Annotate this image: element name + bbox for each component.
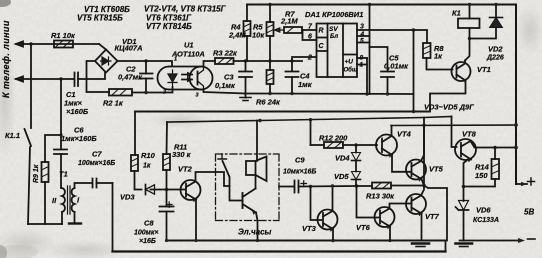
wire [99,44,106,50]
svg-text:К1: К1 [452,9,461,18]
svg-text:2: 2 [162,90,166,96]
svg-text:R12 200: R12 200 [319,134,348,143]
wire [132,92,171,94]
wire C7 to box [97,182,113,184]
opto arrows [182,75,192,80]
svg-text:1мк×160Б: 1мк×160Б [61,134,97,143]
clock transistor (no circle) [242,193,244,208]
wire VT4 emitter to VT5 base [392,155,412,172]
svg-text:VT7: VT7 [425,212,440,221]
ground bus right [460,240,519,242]
svg-text:R: R [319,28,324,35]
transistor VT8 [455,139,476,160]
ground T1 [69,222,81,224]
wire [146,61,172,66]
top rail [247,4,516,6]
svg-text:С7: С7 [92,150,102,159]
svg-text:VD3: VD3 [120,193,135,202]
wire pin2 from C4 [292,57,317,61]
transistor VT6 [375,207,395,227]
svg-text:VD5: VD5 [334,172,349,181]
junction [244,59,247,62]
frame right riser [445,241,447,252]
switch K1.1 blade [25,129,32,146]
svg-text:10мк×16Б: 10мк×16Б [283,169,316,176]
wire clock collector to speaker [255,175,257,189]
svg-text:+U: +U [345,59,354,66]
transistor VT3 [318,210,338,230]
svg-text:1к: 1к [143,163,151,170]
svg-text:330 к: 330 к [172,150,192,159]
wire R13 [357,185,425,188]
capacitor C5 [381,72,394,95]
wire 555 output [370,29,414,31]
capacitor C7 [93,179,97,188]
resistor R14 [492,159,500,179]
junction [144,91,147,94]
wire R11 branch [166,122,169,154]
svg-text:VT8: VT8 [462,130,477,139]
svg-text:100мк×16Б: 100мк×16Б [78,160,115,167]
resistor R2 [109,89,132,96]
wire junction to VT2 base [167,189,186,191]
clock switch [218,154,227,159]
wire VT4 collector [391,126,393,137]
wire R9 down [44,182,46,224]
svg-text:10к: 10к [252,31,265,40]
C8 plus sign [167,202,173,208]
junction [268,59,271,62]
svg-text:VT3: VT3 [302,224,317,233]
potentiometer R5 [267,22,274,36]
wire VT3 base feed [311,187,323,221]
wire [118,60,147,62]
transistor VT2 [181,180,201,200]
wire R11 to junction [166,170,168,190]
wire VT2 collector [196,172,230,186]
svg-text:Эл.часы: Эл.часы [238,228,272,237]
right rail [515,5,517,185]
svg-text:1к: 1к [434,52,443,61]
wire R4 branch [246,5,248,22]
svg-text:1: 1 [174,57,177,63]
wire C9 feed [279,186,294,188]
svg-text:8: 8 [360,55,364,62]
svg-text:5: 5 [360,38,364,45]
wire VT8 emitter [464,159,470,202]
svg-text:R6 24к: R6 24к [256,98,281,107]
opto phototransistor [190,67,213,90]
junction [268,92,271,95]
svg-text:Д226: Д226 [486,55,504,62]
capacitor C4 [286,61,299,94]
minus terminal [518,238,525,243]
wire pin6 tie [303,30,317,40]
resistor R1 [54,41,73,48]
resistor R12 [324,142,343,148]
capacitor C3 [239,61,252,94]
wire VT6 emitter [389,227,391,241]
wire VD5 node to VT6 base [357,186,380,218]
capacitor C6 [54,135,67,154]
capacitor C9 [295,181,299,193]
junction [290,59,293,62]
capacitor C2 [140,74,153,79]
junction [59,77,62,80]
capacitor C1 [75,73,79,87]
wire [145,61,147,74]
wire VT3 collector [332,186,334,211]
resistor R3 [215,58,234,64]
resistor R10 [131,155,138,171]
svg-text:VT7 КТ814Б: VT7 КТ814Б [146,22,192,31]
svg-text:5В: 5В [524,208,534,217]
svg-text:100мк×: 100мк× [134,230,159,237]
clock dashed box [216,154,280,221]
svg-text:R1 10к: R1 10к [51,31,76,40]
plus terminal [516,183,527,185]
svg-text:SV: SV [329,26,338,33]
speaker B1 [246,161,256,175]
wire node to right riser [424,186,447,241]
wire relay bottom [470,28,497,39]
svg-text:0,1мк: 0,1мк [215,81,236,90]
R5 wiper arrow from R7 [276,29,283,31]
wire output down to bus [413,30,415,111]
transistor VT4 [376,135,397,156]
svg-text:R9 1к: R9 1к [33,164,40,183]
wire R8 to VT1 base [427,58,453,70]
svg-text:150: 150 [475,171,488,180]
wire LED cathode [172,87,174,93]
svg-text:VT2: VT2 [178,165,193,174]
left edge of lower frame [112,183,114,252]
wire [87,61,110,92]
svg-text:R3 22к: R3 22к [213,49,238,58]
wire C5 stub [370,47,388,72]
svg-text:1: 1 [360,62,364,69]
wire [246,36,248,61]
svg-text:3: 3 [196,93,199,99]
svg-text:VT5: VT5 [429,165,444,174]
wire R14 bottom [464,179,496,187]
wire pins 4/5 vertical [369,5,371,95]
svg-text:R10: R10 [141,151,156,160]
svg-text:КС133А: КС133А [473,217,499,224]
svg-text:Т1: Т1 [59,170,68,179]
transistor VT5 [406,160,426,180]
wire R3 to chip area [234,60,303,62]
wire R12 feed [310,120,312,145]
transformer T1 winding I [72,188,75,212]
opto LED [168,70,177,87]
svg-text:R13 30к: R13 30к [366,192,395,201]
wire VT8 base riser [452,117,457,148]
bottom-left wire [28,223,62,225]
wire VT2 emitter [195,200,197,241]
wire VT5 emitter / VT7 collector [422,125,425,185]
diode VD3 [145,185,147,195]
zener VD6 [459,201,469,211]
svg-text:Бл: Бл [330,34,338,40]
wire VT1 collector [465,39,470,61]
ground bus under chip [245,93,414,96]
svg-text:К телеф. линии: К телеф. линии [1,20,11,98]
supply line y111 [135,111,430,113]
line y125 [391,124,516,127]
resistor R6 [267,70,274,84]
optocoupler U1 body [169,67,203,90]
junction [29,42,32,45]
svg-text:VD6: VD6 [476,206,491,215]
ground under C3 [240,98,251,101]
wire VT3 emitter [332,229,334,241]
svg-text:0,01мк: 0,01мк [384,62,409,71]
svg-text:VD2: VD2 [488,45,503,54]
wire [30,44,32,128]
wire opto emitter to bus [204,90,246,94]
relay K1 [469,5,471,19]
svg-text:Общ: Общ [344,67,358,74]
scan smudges [0,0,11,7]
bottom rail [113,250,446,252]
diode VD4 [355,145,357,153]
wire clock emitter [256,213,258,241]
wire winding I bottom to ground [74,212,76,222]
svg-text:К1.1: К1.1 [5,131,20,140]
svg-text:×160Б: ×160Б [66,107,89,116]
ground bus bottom [167,240,446,242]
resistor R8 [423,43,431,58]
svg-text:1мк: 1мк [298,80,313,89]
wire winding I top [75,183,92,188]
svg-text:VD4: VD4 [335,154,350,163]
wire VT7 collector [421,186,424,196]
svg-text:С9: С9 [295,156,305,165]
wire R5 branch [269,5,271,23]
resistor R9 [42,162,49,182]
svg-text:DA1 КР1006ВИ1: DA1 КР1006ВИ1 [305,10,363,19]
wire VT1 emitter [430,81,466,112]
wire C6 to T1 [60,154,62,188]
svg-text:3: 3 [360,24,364,31]
wire R7 to pin7 [302,29,317,31]
wire clock base [230,186,243,201]
wire R14 top [494,148,496,160]
wire junction down to C8 [166,190,168,207]
svg-text:VD3~VD5 Д9Г: VD3~VD5 Д9Г [424,103,474,112]
transformer T1 winding II [62,188,65,212]
diode VD5 [355,161,357,172]
wire VT7 emitter [421,214,423,241]
ground symbol right [456,242,473,245]
junction [412,28,415,31]
diode VD2 [495,5,497,18]
svg-text:2,1М: 2,1М [280,17,298,26]
resistor R7 [284,27,302,33]
wire speaker top [256,121,258,162]
wire [78,73,105,79]
wire [28,147,30,224]
wire VT8 collector [471,141,517,148]
wire output to R8 [414,30,428,43]
svg-text:КЦ407А: КЦ407А [115,44,143,53]
svg-text:VT1: VT1 [477,65,491,74]
svg-text:0,47мк: 0,47мк [118,73,143,82]
wire VT5 collector [421,118,424,162]
svg-text:VT5 КТ815Б: VT5 КТ815Б [77,14,123,23]
svg-text:U1: U1 [184,41,194,50]
wire [145,79,147,93]
svg-text:VT4: VT4 [397,130,412,139]
svg-text:R2 1к: R2 1к [103,99,124,108]
capacitor C8 [160,207,174,212]
junction [144,59,147,62]
resistor R11 [163,154,170,170]
wire R10 to VD3 [135,171,142,190]
C9 plus [301,181,307,187]
svg-text:2,4М: 2,4М [228,31,246,40]
svg-text:С8: С8 [144,219,154,228]
transistor VT1 [452,62,471,81]
wire [269,84,271,94]
wire C9 to VD5 node [299,185,357,188]
svg-text:6: 6 [308,34,312,41]
wire R10 branch [134,112,136,156]
resistor R13 [372,183,391,189]
timer DA1 box [317,24,358,78]
wire VD3 to junction [151,189,167,191]
node: phone line terminal lower [16,78,74,80]
bridge rectifier VD1 [95,50,118,73]
wire C6 branch [45,79,61,162]
svg-text:2: 2 [307,55,312,62]
svg-text:×16Б: ×16Б [139,238,156,245]
DA1 right pin stubs [357,30,370,65]
wire R12 [311,144,378,146]
wire [269,36,271,70]
svg-text:VT6: VT6 [356,223,371,232]
wire pin1 to bus [366,58,368,94]
wire VT6 collector to VT7 base [390,204,412,209]
transistor VT7 [406,194,426,214]
ground symbol mid [412,242,429,245]
node: phone line terminal upper [16,43,99,45]
resistor R4 [244,21,251,36]
wire opto collector to R3 [204,61,216,67]
line y121 speaker/VT8 feed [167,117,452,123]
T1 core [68,186,71,214]
svg-text:VT2-VT4, VT8 КТ315Г: VT2-VT4, VT8 КТ315Г [144,5,227,14]
